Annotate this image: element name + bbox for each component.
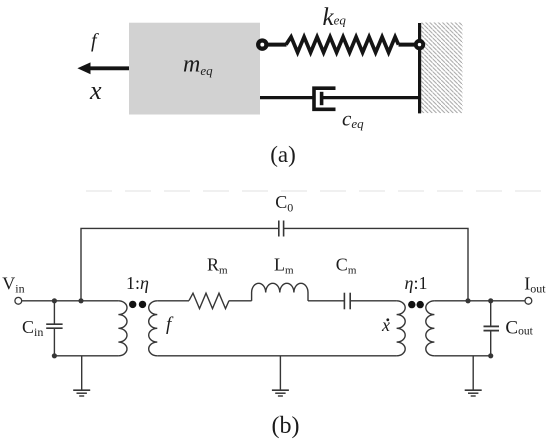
transformer T1 primary coil (118, 301, 127, 356)
svg-text:(b): (b) (272, 413, 300, 439)
svg-text:x: x (89, 76, 102, 105)
wire: output top (434, 300, 525, 302)
node: Cin top (52, 298, 57, 303)
svg-text:x: x (381, 315, 390, 335)
damper cylinder (314, 88, 336, 109)
T1 polarity dots (129, 301, 136, 308)
svg-text:1:η: 1:η (126, 273, 149, 293)
wire: spring to wall (399, 43, 420, 47)
transformer T2 secondary coil (426, 301, 435, 356)
svg-text:η:1: η:1 (405, 273, 428, 293)
faint rule artifact (86, 190, 546, 192)
wall hatch (421, 23, 462, 114)
wire: Lm to Cm (308, 300, 344, 302)
node: C0 right tap (465, 298, 470, 303)
ground right (472, 356, 474, 390)
wall line (418, 23, 421, 113)
spring hinge circle (258, 41, 266, 49)
transformer T1 secondary coil (149, 301, 158, 356)
force arrow f (77, 62, 129, 74)
wire: input (22, 300, 119, 302)
wire: output bottom (434, 355, 490, 357)
damper piston (320, 92, 324, 105)
transformer T2 primary coil (397, 301, 406, 356)
node: C0 tap (78, 298, 83, 303)
terminal Vin (15, 297, 22, 304)
spring k_eq (286, 37, 399, 53)
wire: C0 top left (81, 228, 279, 300)
capacitor Cin (46, 301, 62, 356)
wire: Rm to Lm (229, 300, 252, 302)
wire: C0 top right (284, 228, 468, 300)
node: Cin bottom (52, 353, 57, 358)
wire: mass to damper (260, 96, 314, 99)
damper rod to wall (322, 96, 420, 99)
wall pivot dot (414, 39, 425, 50)
wire: bottom left (54, 355, 118, 357)
inductor Lm (252, 283, 308, 301)
terminal Iout (525, 297, 532, 304)
capacitor Cm (343, 293, 345, 310)
wire: T1 to Rm (157, 300, 189, 302)
wire: Cm to T2 (350, 300, 396, 302)
wire: hinge to spring (267, 43, 287, 47)
mass block m_eq (129, 23, 260, 115)
T2 polarity dots (408, 301, 415, 308)
resistor Rm (189, 293, 229, 308)
wire: middle bottom (157, 355, 396, 357)
node: Cout bottom (488, 353, 493, 358)
node: Cout top (488, 298, 493, 303)
capacitor C0 (278, 221, 280, 237)
capacitor Cout (484, 301, 500, 356)
svg-text:(a): (a) (270, 142, 296, 167)
ground middle (279, 356, 281, 390)
ground left (81, 356, 83, 390)
